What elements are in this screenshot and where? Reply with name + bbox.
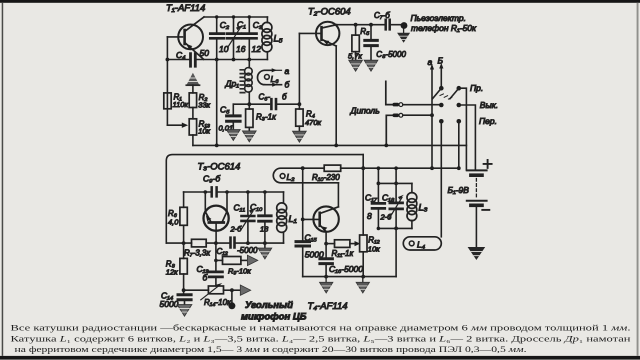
capacitor C9 (212, 187, 217, 196)
svg-text:Др₁: Др₁ (225, 79, 240, 89)
wire R1 bottom to wiper arrow (167, 124, 182, 126)
svg-text:Т₂-ОС604: Т₂-ОС604 (308, 7, 351, 18)
capacitor C15 (296, 242, 310, 246)
svg-text:С₄: С₄ (176, 50, 186, 60)
capacitor C7 (386, 20, 390, 30)
wire dipole upper to switch (403, 104, 442, 106)
wire stage3 supply loop top and left (166, 155, 363, 244)
capacitor C6 (271, 99, 276, 109)
resistor R12 potentiometer (360, 235, 367, 252)
svg-text:С₈-5000: С₈-5000 (376, 50, 406, 59)
page top border bar (0, 0, 640, 3)
svg-text:а: а (428, 57, 433, 67)
wire R2-R13 (192, 108, 194, 119)
capacitor C5 (232, 104, 234, 114)
svg-text:L₄: L₄ (417, 239, 426, 249)
resistor R3 (248, 104, 250, 109)
wire left column base (166, 37, 168, 125)
svg-text:а: а (285, 66, 290, 76)
svg-text:С₁₈: С₁₈ (382, 193, 395, 203)
capacitor C16 (325, 244, 327, 258)
wire T2 emitter to plus rail (335, 46, 337, 145)
wire C6 row (233, 103, 299, 105)
svg-text:R₁₂: R₁₂ (368, 236, 379, 245)
capacitor C18 variable (395, 168, 397, 201)
wire top rail collector (204, 16, 267, 18)
svg-text:5000: 5000 (160, 299, 179, 309)
svg-text:-5000: -5000 (237, 246, 258, 255)
page right border line (637, 3, 639, 356)
svg-text:С₅: С₅ (220, 105, 230, 115)
capacitor C12 (231, 238, 235, 248)
ground under R3 (242, 131, 256, 142)
wire T3 emitter stub (204, 192, 206, 212)
svg-text:Т₄-АF114: Т₄-АF114 (308, 301, 348, 312)
plus sign (484, 160, 492, 168)
resistor R13 potentiometer (189, 119, 196, 135)
svg-text:L₃: L₃ (419, 203, 428, 214)
battery cell 1 (467, 169, 487, 171)
wire stage4 bottom rail (303, 276, 396, 278)
wire Pr to battery (459, 88, 467, 170)
capacitor C13 (215, 243, 217, 270)
svg-text:10к: 10к (198, 127, 210, 136)
resistor R7 (192, 239, 207, 247)
svg-text:С₆-: С₆- (259, 93, 271, 102)
resistor R2 (189, 93, 196, 108)
svg-text:микрофон ЦБ: микрофон ЦБ (241, 312, 307, 323)
wire C9 row (184, 191, 284, 193)
wire T4 base (303, 218, 319, 220)
svg-text:С₂: С₂ (220, 20, 230, 30)
resistor R6 (183, 192, 185, 207)
battery cell 2 (467, 200, 487, 202)
wire T3 base stem (215, 224, 217, 243)
svg-text:Вык.: Вык. (480, 100, 498, 110)
ground under R5 (349, 60, 363, 71)
svg-text:Пер.: Пер. (479, 116, 497, 126)
capacitor C10 (264, 192, 266, 214)
svg-text:С₁₂: С₁₂ (217, 247, 228, 256)
svg-text:L₅: L₅ (274, 34, 283, 45)
svg-text:110к: 110к (173, 100, 189, 109)
svg-text:R₁₄-10к: R₁₄-10к (204, 298, 232, 307)
svg-text:10: 10 (219, 44, 229, 54)
capacitor C14 (183, 290, 185, 293)
choke Dr1 (248, 60, 250, 105)
resistor R4 (298, 33, 300, 104)
svg-text:С₉-б: С₉-б (203, 174, 221, 184)
svg-text:С₁₆-5000: С₁₆-5000 (329, 264, 363, 274)
wire C18 column to rail (395, 228, 397, 276)
svg-text:R₅: R₅ (360, 27, 370, 36)
wire T4 emitter (325, 232, 327, 244)
svg-text:на ферритовом сердечнике диаме: на ферритовом сердечнике диаметром 1,5— … (15, 344, 527, 354)
svg-text:Все катушки радиостанции —беск: Все катушки радиостанции —бескаркасные и… (11, 323, 631, 333)
svg-text:2-б: 2-б (230, 225, 243, 234)
inductor L5 (266, 17, 268, 60)
svg-text:470к: 470к (305, 118, 322, 127)
wire node a column (431, 69, 433, 169)
wire contact bottom-left to L4 (440, 121, 442, 237)
svg-text:Т₃-ОС614: Т₃-ОС614 (198, 162, 241, 173)
wire T1 base (167, 36, 182, 38)
ground under R4 (293, 131, 307, 142)
svg-text:R₁₁-1к: R₁₁-1к (332, 249, 355, 258)
inductor L3 (411, 183, 413, 228)
capacitor C3 (248, 17, 250, 32)
transistor T4 (313, 206, 338, 231)
resistor R5 (354, 23, 358, 27)
svg-text:R₇-3,3к: R₇-3,3к (184, 249, 211, 258)
minus sign (482, 209, 489, 211)
resistor R1 (164, 93, 171, 109)
svg-text:Б: Б (438, 56, 444, 66)
dipole lower arm (386, 115, 392, 145)
resistor R8 (183, 243, 185, 258)
svg-text:12к: 12к (166, 267, 178, 276)
capacitor C17 (377, 168, 379, 201)
svg-text:R₃-1к: R₃-1к (256, 113, 277, 122)
capacitor C4 (191, 54, 196, 67)
svg-text:С₁₀: С₁₀ (250, 202, 263, 212)
ground under R12 rail (362, 277, 364, 282)
svg-text:2-б: 2-б (380, 213, 393, 222)
terminal phone jack (401, 22, 408, 29)
wire T2 base (299, 32, 320, 34)
svg-text:18: 18 (260, 225, 269, 234)
microphone terminal (231, 290, 233, 302)
resistor R11 (326, 243, 334, 245)
wire node B arrow (440, 68, 442, 89)
svg-text:С₁: С₁ (237, 20, 246, 30)
battery ground (468, 247, 486, 260)
link coil L2 (273, 168, 338, 183)
inductor L1 (283, 192, 285, 243)
wire tank2 bottom row (378, 227, 412, 229)
svg-text:12: 12 (252, 44, 262, 54)
transistor T3 (204, 206, 229, 231)
resistor R9 (214, 259, 218, 263)
svg-text:4,0: 4,0 (168, 217, 179, 226)
wire R7 row (tank bottom) (166, 242, 283, 244)
capacitor C1 variable (233, 17, 235, 32)
svg-text:б: б (282, 93, 287, 102)
battery dashed link (475, 179, 477, 198)
svg-text:R₁₀-230: R₁₀-230 (312, 173, 340, 182)
capacitor C11 variable (247, 192, 249, 214)
svg-text:33к: 33к (198, 100, 210, 109)
node R14 output (230, 288, 234, 292)
wire T4 collector (337, 183, 339, 207)
dipole upper arm (386, 81, 393, 104)
svg-text:Катушка L₁ содержит 6 витков,: Катушка L₁ содержит 6 витков, L₂ и L₃—3,… (11, 334, 632, 344)
wire R13 to plus rail (192, 135, 194, 145)
wire R10 row (303, 167, 459, 169)
svg-text:С₇-б: С₇-б (374, 11, 390, 20)
battery to ground stem (475, 207, 477, 247)
wire dipole lower to node a (403, 114, 432, 116)
wire contact bottom-right down (458, 121, 460, 168)
wire T2 collector row (337, 24, 401, 26)
wire C2 column to plus rail (216, 60, 218, 146)
ground under C10 junction (264, 243, 266, 248)
resistor R14 potentiometer (208, 286, 223, 294)
wire R12 column upper (362, 155, 364, 235)
svg-text:Т₁-АF114: Т₁-АF114 (166, 3, 205, 14)
svg-text:С₁₁: С₁₁ (234, 203, 246, 213)
svg-text:L₆: L₆ (271, 74, 280, 84)
page bottom border bar (0, 356, 640, 360)
ground under C14 (177, 305, 192, 317)
resistor R10 (324, 165, 341, 171)
switch blades (432, 88, 458, 99)
capacitor C2 (216, 17, 218, 32)
wire plus rail (193, 144, 467, 146)
capacitor C8 (369, 23, 373, 27)
svg-text:16: 16 (236, 44, 246, 54)
node base/tank junction (166, 58, 170, 62)
svg-text:телефон R₁-50к: телефон R₁-50к (411, 23, 477, 33)
svg-text:Пр.: Пр. (470, 83, 483, 93)
svg-text:50: 50 (200, 48, 210, 58)
svg-text:Диполь: Диполь (350, 106, 380, 116)
switch contacts (439, 86, 444, 91)
svg-text:5,7к: 5,7к (348, 52, 362, 61)
ground under C5 (226, 130, 240, 141)
wire tank2 top row (378, 182, 412, 184)
transistor T2 (316, 22, 339, 45)
link coil L4 (403, 237, 441, 250)
ground under C16 rail (325, 277, 327, 282)
wire C15 column (302, 168, 304, 240)
svg-text:Угольный: Угольный (245, 300, 293, 311)
page left border line (2, 3, 4, 356)
svg-text:L₁: L₁ (289, 214, 297, 225)
wire tank bottom (167, 59, 267, 61)
svg-text:С₁₇: С₁₇ (365, 193, 378, 203)
svg-text:Б₁-9В: Б₁-9В (448, 185, 470, 195)
wire T3 collector stub (226, 192, 228, 211)
svg-text:10к: 10к (368, 245, 380, 254)
link coil L6 (258, 70, 271, 84)
wire Vyk to battery (459, 105, 476, 170)
svg-text:С₁₅: С₁₅ (305, 232, 318, 242)
ground under phone terminal (397, 33, 410, 43)
chassis symbol above R2 (187, 73, 200, 85)
ground under C8 (364, 60, 378, 71)
svg-text:8: 8 (367, 211, 372, 221)
svg-text:R₉-10к: R₉-10к (228, 266, 251, 275)
transistor T1 (178, 25, 203, 50)
wire R8 to R14 row (184, 289, 209, 291)
svg-text:L₂: L₂ (287, 172, 296, 182)
svg-text:Пьезоэлектр.: Пьезоэлектр. (411, 13, 466, 23)
